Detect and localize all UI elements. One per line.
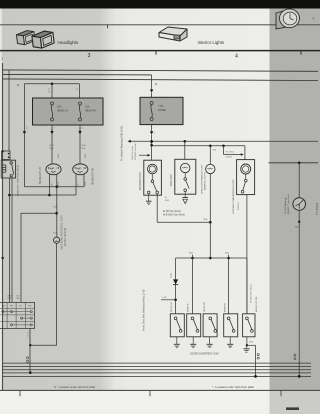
svg-text:R-W: R-W (58, 154, 60, 158)
svg-text:To Unlock Warning S/W (2-B): To Unlock Warning S/W (2-B) (120, 126, 124, 161)
svg-text:* : Located under right front: * : Located under right front pillar (212, 385, 254, 389)
svg-text:1: 1 (1, 332, 2, 334)
svg-text:W: W (165, 197, 167, 199)
svg-text:W (G/T): W (G/T) (226, 157, 233, 159)
svg-text:R-W: R-W (53, 232, 57, 234)
svg-text:LG-B: LG-B (171, 273, 173, 278)
svg-text:L-W: L-W (162, 297, 166, 299)
svg-text:From Seat Belt Warning Relay (: From Seat Belt Warning Relay (2-B) (142, 289, 146, 331)
svg-text:DOME: DOME (158, 108, 166, 112)
svg-text:W (W/ Sun Roof): W (W/ Sun Roof) (132, 146, 134, 160)
svg-text:W-B: W-B (225, 252, 230, 254)
svg-text:R-B: R-B (53, 206, 57, 208)
svg-text:E: E (17, 83, 19, 87)
svg-text:[WARNING LIGHT]: [WARNING LIGHT] (203, 172, 206, 190)
svg-text:W-B: W-B (203, 219, 208, 221)
svg-text:HEAD LH: HEAD LH (57, 109, 68, 112)
svg-text:*1 : Located under left front: *1 : Located under left front pillar (54, 385, 96, 389)
svg-text:FRONT LH: FRONT LH (171, 302, 173, 312)
svg-text:R-W: R-W (8, 295, 12, 297)
svg-text:Interior Lights: Interior Lights (198, 40, 225, 45)
svg-text:HEAD RH: HEAD RH (85, 109, 96, 112)
svg-text:DOOR COURTESY S/W: DOOR COURTESY S/W (190, 351, 219, 355)
svg-text:LUGGAGE COMPARTMENT LIGHT: LUGGAGE COMPARTMENT LIGHT (232, 179, 235, 214)
svg-text:HEADLIGHT LH: HEADLIGHT LH (39, 167, 42, 184)
svg-text:CLOCK [Analog]: CLOCK [Analog] (284, 197, 287, 214)
svg-text:HEADLIGHT CONTROL RELAY: HEADLIGHT CONTROL RELAY (16, 164, 19, 196)
svg-text:W-B [Digital]: W-B [Digital] (315, 202, 318, 215)
svg-text:R-W: R-W (82, 145, 86, 147)
svg-text:15A: 15A (57, 106, 62, 109)
svg-text:3: 3 (88, 53, 91, 59)
svg-text:BACK DOOR S/W: BACK DOOR S/W (255, 296, 258, 312)
svg-text:REAR RH: REAR RH (224, 303, 227, 312)
svg-text:R-B: R-B (82, 148, 86, 150)
svg-text:MAP LIGHT: MAP LIGHT (170, 173, 173, 186)
svg-text:W-B: W-B (295, 227, 300, 229)
svg-text:R-G (S/D): R-G (S/D) (226, 151, 234, 153)
svg-text:HL: HL (20, 306, 22, 308)
svg-text:E: E (155, 82, 157, 86)
svg-text:R-W: R-W (85, 154, 87, 158)
svg-text:4: 4 (235, 53, 238, 59)
svg-text:W-B (W/O Sun Roof): W-B (W/O Sun Roof) (163, 215, 185, 217)
svg-text:L-P (W/O Rear Wiper): L-P (W/O Rear Wiper) (250, 284, 253, 303)
svg-text:Headlights: Headlights (58, 40, 80, 45)
svg-text:W-B (W/O Sun Roof): W-B (W/O Sun Roof) (135, 143, 137, 160)
svg-text:15A: 15A (85, 106, 90, 109)
svg-text:R-W: R-W (50, 145, 54, 147)
svg-text:HEADLIGHT RH: HEADLIGHT RH (92, 168, 95, 185)
svg-text:REAR LH: REAR LH (187, 303, 190, 312)
svg-text:W (W/ Sun Roof): W (W/ Sun Roof) (163, 211, 181, 213)
svg-text:[2000GT Twin Cam]: [2000GT Twin Cam] (288, 194, 290, 214)
svg-text:7.5A: 7.5A (158, 104, 164, 108)
svg-text:W-B: W-B (165, 200, 170, 202)
svg-text:OPEN DOOR WARNING LIGHT: OPEN DOOR WARNING LIGHT (200, 164, 203, 194)
svg-text:INTERIOR LIGHT: INTERIOR LIGHT (140, 171, 142, 190)
svg-text:[COMB. METER]: [COMB. METER] (64, 227, 67, 246)
svg-text:FRONT RH: FRONT RH (204, 302, 206, 312)
svg-text:W-B R-G: W-B R-G (238, 202, 240, 210)
svg-text:W-B: W-B (189, 252, 194, 254)
